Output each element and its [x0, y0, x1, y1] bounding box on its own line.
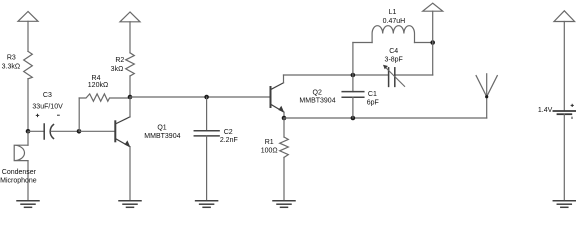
power VCC symbol 2 [120, 12, 140, 22]
svg-text:33uF/10V: 33uF/10V [32, 103, 63, 110]
node mic/C3/R3 junction [26, 129, 31, 134]
label C3 polarity marks [36, 104, 574, 119]
wire VCC4 to battery [563, 22, 565, 112]
node L1/VCC junction [430, 40, 435, 45]
wire Q2 emitter to node [283, 112, 285, 118]
svg-text:1.4V: 1.4V [538, 107, 553, 114]
svg-text:3-8pF: 3-8pF [385, 57, 403, 64]
resistor R4 [79, 94, 130, 101]
wire Q1 collector to node [129, 97, 131, 117]
wire base node to Q1 base [79, 130, 115, 132]
label battery polarity marks [571, 104, 574, 106]
wire R1 to ground [283, 157, 285, 200]
wire C2 to ground [206, 136, 208, 201]
arrowhead Q1 emitter [125, 140, 131, 147]
wire collector rail to Q2 base [130, 96, 271, 98]
svg-text:C4: C4 [389, 48, 398, 55]
svg-text:3.3kΩ: 3.3kΩ [2, 63, 20, 70]
svg-text:R4: R4 [92, 75, 101, 82]
power VCC symbol 3 [423, 3, 443, 11]
node C3/R4/base junction [77, 129, 82, 134]
svg-text:Microphone: Microphone [0, 178, 37, 185]
wire node to C2 [206, 97, 208, 131]
wire node to C3 [28, 130, 44, 132]
wire node to mic [27, 131, 29, 145]
svg-text:2.2nF: 2.2nF [220, 137, 238, 144]
arrow C4 adjust [385, 67, 404, 86]
wire R3 to mic node [27, 79, 29, 132]
svg-text:3kΩ: 3kΩ [111, 66, 124, 73]
wire C4 right plate to corner [395, 74, 433, 76]
svg-text:Q1: Q1 [157, 125, 166, 132]
wire VCC1 to R3 [27, 21, 29, 51]
transistor Q2 [271, 83, 285, 112]
wire base node up to R4 [78, 98, 80, 131]
svg-text:100Ω: 100Ω [261, 148, 278, 155]
capacitor C3 (electrolytic) [44, 124, 53, 139]
wire C3 to base node [51, 130, 79, 132]
wire mic to ground [27, 161, 29, 201]
wire Q2 collector up [283, 75, 285, 83]
wire L1 right to node [415, 42, 433, 44]
svg-text:MMBT3904: MMBT3904 [299, 98, 335, 105]
resistor R1 [280, 137, 289, 157]
svg-text:120kΩ: 120kΩ [88, 82, 108, 89]
svg-text:R3: R3 [7, 54, 16, 61]
svg-text:6pF: 6pF [367, 100, 379, 107]
inductor L1 [372, 26, 414, 43]
wire VCC2 to R2 [129, 22, 131, 53]
svg-text:C3: C3 [43, 92, 52, 99]
capacitor C4 (variable) [389, 68, 395, 87]
wire collector rail to C4 [284, 74, 389, 76]
resistor R3 [24, 51, 33, 78]
wire Q1 emitter to ground [129, 147, 131, 201]
svg-text:MMBT3904: MMBT3904 [144, 133, 180, 140]
svg-text:C1: C1 [368, 91, 377, 98]
power VCC symbol left [18, 12, 38, 22]
ground mic [17, 201, 39, 208]
svg-text:R2: R2 [115, 57, 124, 64]
svg-text:0.47uH: 0.47uH [383, 18, 406, 25]
wire emitter rail to antenna [284, 117, 487, 119]
node tank left top [351, 73, 356, 78]
svg-text:L1: L1 [389, 9, 397, 16]
node C1 bottom [351, 116, 356, 121]
wire node to R1 [283, 118, 285, 137]
resistor R2 [126, 53, 135, 76]
wire C1 bottom to emitter rail [352, 97, 354, 118]
wire tank top left [353, 42, 372, 44]
ground C2 [196, 201, 218, 208]
node emitter/R1/rail [282, 116, 287, 121]
condenser microphone MK1 [14, 145, 28, 160]
capacitor C2 [194, 131, 219, 136]
wire R2 to collector node [129, 76, 131, 97]
ground R1 [273, 201, 295, 208]
svg-text:Q2: Q2 [313, 89, 322, 96]
ground battery [553, 201, 575, 208]
svg-text:R1: R1 [265, 139, 274, 146]
battery B1 [553, 111, 575, 114]
antenna ANT1 [486, 97, 488, 118]
svg-text:C2: C2 [224, 129, 233, 136]
ground Q1 [119, 201, 141, 208]
wire VCC3 down to node [432, 11, 434, 42]
wire node down to C4 rail [432, 43, 434, 76]
wire tank left vertical [352, 43, 354, 76]
capacitor C1 [352, 75, 354, 92]
node C2 tap [204, 95, 209, 100]
arrowhead Q2 emitter [278, 106, 284, 113]
wire battery to ground [563, 114, 565, 201]
svg-text:Condenser: Condenser [2, 169, 37, 176]
power VCC symbol 4 [554, 11, 575, 22]
transistor Q1 [115, 117, 130, 147]
node R2/R4/rail/Q1 collector [128, 95, 133, 100]
